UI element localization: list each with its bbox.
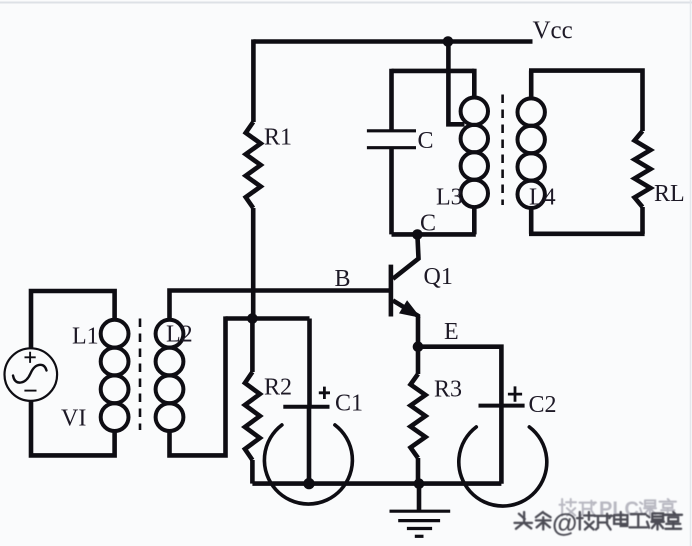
capacitor C2 curved plate <box>459 427 547 506</box>
svg-text:Vcc: Vcc <box>533 17 573 44</box>
wire L4 bottom lead <box>529 208 534 234</box>
wire L1 bottom to source <box>31 401 115 456</box>
wire RL bottom lead <box>640 207 645 234</box>
watermark dark: 头条@技成电工课堂 <box>515 508 683 538</box>
transistor Q1 emitter arrow <box>401 303 417 316</box>
transistor Q1 emitter lead <box>393 300 418 346</box>
svg-text:C2: C2 <box>529 392 557 418</box>
resistor R1 <box>246 122 261 208</box>
svg-text:PLC: PLC <box>599 499 639 521</box>
wire tank top rail <box>392 69 475 74</box>
border artifact right <box>690 0 692 546</box>
svg-text:L1: L1 <box>72 324 99 350</box>
polarity + of C1 <box>319 387 330 399</box>
transformer core dashed line L1/L2 <box>139 319 142 431</box>
node emitter junction <box>413 341 424 352</box>
resistor R2 <box>250 319 255 373</box>
inductor L3 <box>461 98 488 125</box>
svg-text:C: C <box>418 128 434 154</box>
svg-text:R3: R3 <box>434 377 462 403</box>
node bias rail junction <box>247 313 258 324</box>
inductor L4 <box>518 98 545 125</box>
source VI sine <box>13 365 47 383</box>
wire L3 bottom lead <box>472 207 477 234</box>
capacitor C1 top plate <box>283 405 329 409</box>
capacitor C2 lower lead <box>499 408 504 484</box>
node Vcc junction <box>443 36 454 47</box>
capacitor C1 curved plate <box>264 425 352 504</box>
svg-text:R2: R2 <box>264 375 292 401</box>
svg-text:R1: R1 <box>264 125 292 151</box>
source VI circle <box>5 348 58 401</box>
resistor R3 <box>416 347 421 374</box>
inductor L1 <box>101 320 129 348</box>
resistor RL <box>635 131 651 207</box>
wire ground rail <box>252 481 501 486</box>
capacitor C plates <box>367 129 416 132</box>
wire bias rail (R1/R2/C1 top) <box>226 316 310 321</box>
wire tank bottom rail (collector node) <box>392 232 476 237</box>
transistor Q1 collector lead <box>393 235 419 279</box>
svg-text:RL: RL <box>654 181 685 207</box>
wire tank left vertical upper <box>389 69 394 131</box>
wire L4/RL top rail <box>529 71 643 131</box>
wire L4/RL bottom rail <box>529 232 645 237</box>
source VI plus <box>25 352 36 363</box>
polarity + of C2 <box>508 386 522 401</box>
wire tank left vertical lower <box>389 148 394 235</box>
svg-text:L2: L2 <box>166 322 193 348</box>
svg-text:L3: L3 <box>436 185 463 211</box>
wire emitter rail to C2 <box>418 347 501 406</box>
svg-text:C: C <box>420 211 436 237</box>
wire L1 top to source <box>31 291 115 348</box>
node ground junction <box>414 478 425 489</box>
ground <box>417 484 422 511</box>
transformer core dashed line L3/L4 <box>501 95 504 206</box>
wire Vcc junction drop to L3 tap <box>448 42 464 125</box>
svg-text:@: @ <box>552 508 577 538</box>
svg-text:E: E <box>444 319 459 345</box>
svg-text:B: B <box>335 266 351 292</box>
node C1 ground junction <box>303 478 314 489</box>
wire L3 top lead <box>472 69 477 98</box>
source VI minus <box>24 390 36 392</box>
svg-text:VI: VI <box>61 406 86 432</box>
wire L2 return: rail down and left to L2 bottom <box>170 316 226 455</box>
watermark light: 技成PLC课堂 <box>560 499 677 521</box>
wire Vcc rail <box>253 39 532 44</box>
capacitor C1 lower lead <box>307 409 312 484</box>
node collector junction <box>412 229 423 240</box>
transistor Q1 base bar <box>389 265 394 317</box>
svg-text:L4: L4 <box>529 185 556 211</box>
svg-text:C1: C1 <box>335 391 363 417</box>
capacitor C2 top plate <box>479 404 525 408</box>
inductor L2 <box>156 320 184 348</box>
capacitor C1 top lead <box>307 319 312 407</box>
border artifact top <box>0 2 692 4</box>
wire R1 bottom to bias rail <box>251 208 256 319</box>
wire L4 top lead <box>529 71 534 99</box>
svg-text:Q1: Q1 <box>424 264 453 290</box>
wire base <box>170 291 390 320</box>
wire R1 branch vertical top <box>251 39 256 122</box>
